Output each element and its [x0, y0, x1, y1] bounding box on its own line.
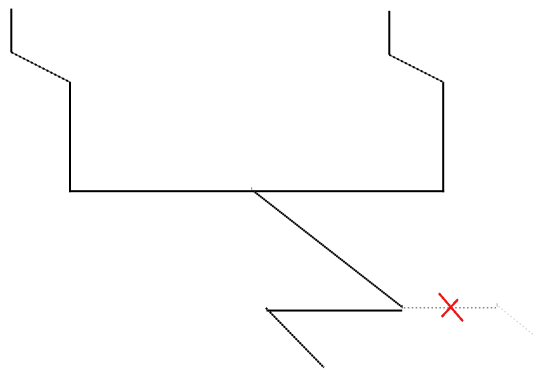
wire: right leg diagonal segment (blobby aliased texture) — [389, 55, 443, 82]
wire: long diagonal segment from bus junction — [253, 191, 402, 307]
wire: right leg lower vertical segment — [442, 82, 444, 192]
wire preview: dotted light diagonal rubber-band segment — [499, 306, 534, 334]
wire: right leg upper vertical segment — [388, 11, 390, 55]
wire: left leg diagonal segment (blobby aliased texture) — [11, 52, 70, 82]
invalid-connection marker: red X slash stroke — [442, 299, 458, 317]
node tick at end of long diagonal — [401, 305, 403, 308]
wire: left leg upper vertical segment — [10, 9, 12, 53]
wire preview: dotted horizontal rubber-band segment — [404, 307, 496, 309]
wire: lower horizontal segment — [267, 310, 403, 312]
wire: lower-left diagonal segment — [266, 308, 324, 368]
wire: bottom horizontal bus segment — [69, 190, 444, 192]
node tick at junction on bottom bus — [251, 187, 253, 190]
invalid-connection marker: red X backslash stroke — [439, 293, 463, 321]
node tick at dotted vertex — [496, 303, 498, 306]
wire: left leg lower vertical segment — [69, 82, 71, 192]
